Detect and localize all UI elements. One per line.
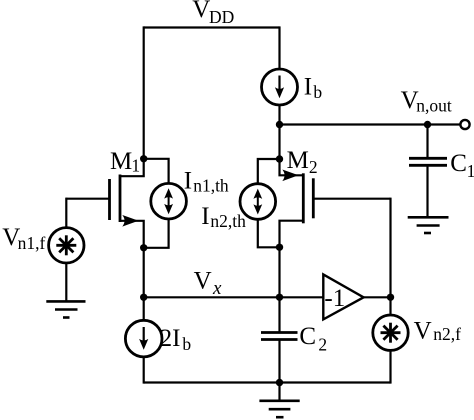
svg-text:M: M [110,148,132,175]
svg-text:2I: 2I [160,325,181,352]
transistor M2 [280,159,314,247]
svg-text:C: C [299,323,316,350]
svg-text:M: M [287,147,309,174]
wire bottom rail [144,381,391,383]
svg-text:V: V [192,0,210,23]
node M2 drain junction [276,155,283,162]
svg-text:-1: -1 [324,285,345,312]
wire Vx horizontal line [144,296,324,298]
node M1 source junction [140,244,147,251]
wire M2 source node to Vx line [278,247,280,297]
label Ib [304,73,323,102]
svg-text:2: 2 [309,157,318,177]
node Vx left junction [140,294,147,301]
svg-text:2: 2 [318,334,327,354]
ground under Vn1,f [46,301,85,317]
node output junction at Ib [276,121,283,128]
svg-text:V: V [414,318,432,345]
wire C2 branch bottom [278,340,280,383]
svg-text:DD: DD [209,7,234,27]
node Vx C2 junction [276,294,283,301]
wire Vx node to 2Ib top [143,297,145,320]
wire Vn1f bottom to ground [65,263,67,301]
svg-text:1: 1 [131,156,140,176]
ground under C1 [408,217,449,233]
wire amp output [364,296,391,298]
node M2 source junction [276,244,283,251]
ground under bottom rail [259,401,299,417]
label Vx [194,267,222,299]
wire C2 branch top [278,297,280,332]
label M1 [110,148,140,176]
wire M1 gate wire [66,198,109,200]
label In2,th [201,203,246,231]
wire C1 branch top [426,125,428,159]
current source Ib [262,69,298,105]
svg-text:x: x [212,278,222,299]
wire 2Ib bottom to bottom rail [143,357,145,384]
label VDD [192,0,234,27]
noise voltage source Vn1,f [49,228,84,263]
svg-text:n2,f: n2,f [433,324,461,344]
label Vn,out [401,87,452,115]
capacitor C1 [409,158,447,165]
svg-text:V: V [194,267,212,294]
noise voltage source Vn2,f [373,315,408,350]
noise current source In2,th [240,159,280,247]
noise current source In1,th [144,159,187,248]
svg-text:n1,th: n1,th [193,175,229,195]
node M1 drain junction [140,155,147,162]
svg-text:I: I [304,73,312,100]
label In1,th [184,167,229,195]
wire VDD top rail [144,26,280,28]
wire output node down to M2 drain node [278,125,280,160]
svg-text:1: 1 [467,161,474,181]
current source 2Ib [125,320,162,357]
node amp output junction [387,294,394,301]
wire ground stub below bottom rail [278,383,280,401]
label C1 [450,150,474,181]
wire C1 branch bottom to ground [426,165,428,217]
svg-text:b: b [313,82,322,102]
wire left rail VDD to M1 drain node [143,26,145,158]
wire amp node to Vn2f top [389,297,391,315]
wire M2 gate wire [313,198,390,200]
label M2 [287,147,318,177]
capacitor C2 [261,333,298,340]
transistor M1 [110,159,144,248]
wire gate to Vn1f top [65,198,67,228]
svg-text:n1,f: n1,f [18,233,46,253]
label C2 [299,323,327,354]
op-amp -1 inverting amplifier [323,274,363,319]
svg-text:b: b [182,334,191,354]
svg-text:n2,th: n2,th [210,211,246,231]
wire right rail VDD to Ib top [278,26,280,69]
label Vn2,f [414,318,461,345]
node C1 output junction [424,121,431,128]
wire output line to terminal [280,123,461,125]
node C2 bottom rail junction [276,379,283,386]
label Vn1,f [2,224,45,253]
output terminal circle [460,120,469,129]
label 2Ib [160,325,192,354]
wire Ib bottom to output node [278,105,280,125]
svg-text:C: C [450,150,467,177]
svg-text:I: I [201,203,209,230]
wire M1 source node to Vx [143,248,145,297]
wire right vertical gate to amp output node [389,198,391,298]
wire Vn2f bottom to bottom rail [389,350,391,383]
svg-text:I: I [184,167,192,194]
svg-text:n,out: n,out [416,95,452,115]
